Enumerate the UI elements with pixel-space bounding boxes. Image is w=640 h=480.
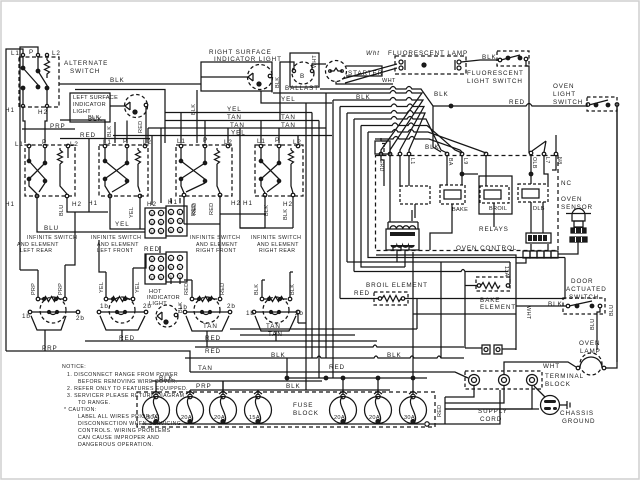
wire TAN bus right mid — [230, 299, 417, 330]
sw3 internals — [181, 148, 205, 162]
wire ballast right to starter — [312, 64, 326, 70]
wire PRP/BLK y390 — [190, 389, 390, 391]
terminal 2 — [499, 375, 510, 386]
terminal — [586, 103, 590, 107]
starter contacts — [330, 68, 342, 71]
wire YEL bus — [110, 198, 145, 229]
wire through plugs — [465, 348, 516, 349]
svg-text:ELEMENT: ELEMENT — [480, 304, 516, 311]
wire BLU down — [597, 308, 600, 350]
svg-text:LABEL ALL WIRES PRIOR TO: LABEL ALL WIRES PRIOR TO — [78, 414, 160, 420]
svg-text:P: P — [275, 137, 280, 144]
ballast box — [290, 53, 319, 87]
door switch box — [563, 298, 605, 314]
svg-text:TAN: TAN — [266, 323, 281, 330]
svg-text:RED: RED — [209, 203, 215, 215]
infinite switch 2 box — [99, 145, 148, 196]
lamp right terminal — [144, 103, 148, 107]
strip step wire — [516, 258, 526, 263]
fuse feeds — [156, 378, 413, 394]
wire h9 — [375, 137, 462, 153]
svg-text:TAN: TAN — [203, 323, 218, 330]
svg-text:LEFT REAR: LEFT REAR — [20, 248, 53, 254]
contact dot — [36, 69, 40, 73]
wire h7 — [361, 123, 462, 153]
grid B circles — [149, 256, 154, 261]
ground mini box — [375, 141, 390, 154]
svg-text:OVEN: OVEN — [553, 83, 574, 90]
plug connector 1 — [482, 345, 490, 354]
wire right terminal down — [261, 78, 332, 103]
svg-text:2b: 2b — [76, 315, 85, 322]
terminal H2 — [45, 104, 48, 107]
svg-text:TAN: TAN — [230, 122, 245, 129]
grid B left — [145, 254, 166, 284]
svg-text:SENSOR: SENSOR — [561, 204, 593, 211]
wire gap drop box1-2 — [88, 139, 90, 213]
svg-text:10: 10 — [150, 257, 155, 262]
svg-text:RED: RED — [80, 132, 96, 139]
wire starter diag to lamp — [342, 64, 397, 83]
svg-text:BLU: BLU — [44, 225, 59, 232]
wire stubs to sw2 — [126, 121, 128, 144]
svg-text:3. SERVICER PLEASE RETURN DIA: 3. SERVICER PLEASE RETURN DIAGRAM — [67, 393, 184, 399]
element left rear circle — [40, 297, 66, 323]
svg-text:Wht: Wht — [366, 50, 380, 57]
svg-text:RELAYS: RELAYS — [479, 226, 509, 233]
svg-text:LIGHT: LIGHT — [149, 301, 167, 307]
svg-text:BLK: BLK — [107, 126, 113, 137]
oven control dashed box — [376, 156, 559, 251]
wire RED bus2 — [195, 346, 332, 348]
infinite switch 4 box — [255, 145, 303, 196]
lamp center dot — [422, 63, 426, 67]
svg-text:TAN: TAN — [281, 122, 296, 129]
svg-text:BLK: BLK — [88, 115, 99, 121]
svg-text:30A: 30A — [404, 415, 415, 421]
terminal GRD — [379, 152, 383, 156]
contact dot — [36, 85, 40, 89]
chassis ground circle — [541, 396, 560, 415]
wire YEL row2 — [113, 135, 332, 137]
grid digits — [150, 210, 182, 280]
svg-text:BLK: BLK — [548, 301, 563, 308]
svg-text:FUSE: FUSE — [293, 402, 313, 409]
sensor band2 — [570, 237, 587, 242]
grid stubs — [171, 198, 180, 284]
element1 wires up PRP — [38, 265, 65, 297]
terminal 3 — [527, 375, 538, 386]
svg-text:BLU: BLU — [609, 305, 615, 316]
blade — [589, 100, 608, 105]
wire mid right link — [413, 252, 516, 378]
svg-text:SUPPLY: SUPPLY — [478, 408, 508, 415]
grid A left — [145, 208, 166, 238]
svg-text:WHT: WHT — [525, 306, 531, 320]
svg-text:BLU: BLU — [59, 205, 65, 216]
wire sw3 drops RED — [184, 197, 220, 224]
svg-text:CHASSIS: CHASSIS — [560, 410, 594, 417]
contact dot — [518, 56, 522, 60]
relay broil — [479, 176, 512, 214]
wire BLK y381 — [151, 380, 322, 382]
svg-text:LAMP: LAMP — [580, 348, 601, 355]
svg-text:1b: 1b — [179, 304, 188, 311]
svg-text:RIGHT FRONT: RIGHT FRONT — [196, 248, 237, 254]
ground symbol — [381, 138, 387, 152]
svg-text:LIGHT: LIGHT — [553, 91, 576, 98]
svg-text:PRP: PRP — [50, 123, 66, 130]
wire y346 — [332, 345, 464, 347]
terminal — [615, 103, 619, 107]
svg-text:BLOCK: BLOCK — [293, 410, 319, 417]
wire to ground — [534, 386, 545, 397]
connector strip — [523, 251, 530, 258]
fuse 20A #2 — [210, 397, 237, 424]
wire H2 down to sw1 P — [45, 108, 47, 143]
svg-text:1b: 1b — [246, 310, 255, 317]
switch terminal — [498, 58, 502, 62]
svg-text:RED: RED — [138, 121, 144, 133]
el4 2b drop — [297, 314, 299, 323]
svg-text:RED: RED — [437, 405, 443, 417]
svg-text:PRP: PRP — [58, 283, 64, 295]
svg-text:GRD: GRD — [378, 159, 384, 172]
wire y358 BLK — [185, 356, 464, 358]
bake element box — [476, 277, 510, 291]
wire h5 — [347, 111, 425, 263]
wire switch down — [526, 61, 529, 153]
ballast terminal — [292, 69, 295, 72]
svg-text:OLB: OLB — [531, 157, 537, 169]
svg-text:DANGEROUS OPERATION.: DANGEROUS OPERATION. — [78, 442, 153, 448]
svg-text:RIGHT REAR: RIGHT REAR — [259, 248, 295, 254]
indicator box — [201, 62, 272, 91]
element4 lower row — [252, 310, 256, 314]
wire sw2 H2 drop — [139, 198, 141, 229]
wire red — [433, 104, 587, 107]
svg-text:RED: RED — [220, 283, 226, 295]
black pin strip — [526, 233, 551, 243]
svg-text:H2: H2 — [283, 201, 293, 208]
lamp left pins — [399, 60, 403, 64]
oven switch relay feed — [532, 135, 556, 152]
contact dot — [21, 86, 25, 90]
svg-text:LEFT SURFACE: LEFT SURFACE — [73, 95, 118, 101]
ballast terminal — [310, 69, 313, 72]
lamp right pins — [457, 60, 461, 64]
terminal H1 — [21, 104, 24, 107]
svg-text:RED: RED — [509, 99, 525, 106]
bake terminals + resistor — [477, 284, 481, 288]
switch blade — [501, 55, 520, 60]
lamp left contact — [125, 102, 130, 110]
svg-text:BLK: BLK — [110, 77, 125, 84]
svg-text:BLK: BLK — [191, 104, 197, 115]
infinite switch 3 box — [176, 145, 232, 196]
svg-text:20A: 20A — [181, 415, 192, 421]
element right rear circle — [263, 297, 289, 323]
relay box 2 bake — [440, 185, 465, 204]
wire WHT — [504, 362, 576, 375]
wire lamp left down BLK — [110, 106, 125, 143]
svg-text:BA: BA — [447, 158, 453, 166]
svg-text:PRP: PRP — [31, 283, 37, 295]
element3 lower row — [183, 310, 187, 314]
svg-text:PRP: PRP — [42, 345, 58, 352]
junction dot red line — [449, 104, 453, 108]
svg-text:RED: RED — [329, 364, 345, 371]
element1 lower row — [28, 310, 32, 314]
fuse 15A — [245, 397, 272, 424]
wire h3 — [333, 98, 423, 379]
svg-text:WHT: WHT — [312, 54, 318, 68]
ballast circle — [292, 62, 314, 84]
terminal block box — [465, 371, 542, 389]
svg-text:TAN: TAN — [198, 365, 213, 372]
svg-text:10: 10 — [150, 211, 155, 216]
wire PRP long — [6, 351, 190, 372]
svg-text:YEL: YEL — [115, 221, 130, 228]
bake wires — [354, 270, 508, 272]
svg-text:PRP: PRP — [196, 383, 212, 390]
sensor bulb — [572, 209, 585, 222]
wire gap drop box3-4 — [240, 128, 265, 228]
lamp right terminal — [268, 74, 272, 78]
svg-text:RED: RED — [144, 246, 160, 253]
svg-text:CORD: CORD — [480, 416, 502, 423]
svg-text:BLK: BLK — [425, 144, 440, 151]
wire ballast left — [280, 62, 294, 120]
svg-text:BAKE: BAKE — [452, 207, 468, 213]
svg-text:RED: RED — [192, 203, 198, 215]
wire P up — [20, 47, 38, 270]
svg-text:INFINITE SWITCH: INFINITE SWITCH — [251, 235, 301, 241]
wire H2 sw1 to H1 sw2 — [67, 198, 108, 212]
wire TAN row2 — [148, 127, 326, 129]
wire BLU bus — [37, 198, 145, 232]
supply cord wires — [445, 386, 532, 409]
wire TAN row — [165, 120, 319, 122]
contact dot — [21, 66, 25, 70]
infinite switch 1 box — [25, 145, 75, 196]
terminal 1 — [469, 375, 480, 386]
element bucket wires — [31, 316, 66, 351]
fuse 20A #4 — [365, 397, 392, 424]
svg-text:BLK: BLK — [356, 94, 371, 101]
svg-text:RED: RED — [354, 290, 370, 297]
grid A circles — [149, 210, 154, 215]
contact dot — [506, 56, 510, 60]
wire h1 — [320, 87, 441, 153]
wire BLK mid — [298, 251, 405, 324]
svg-text:H2: H2 — [72, 201, 82, 208]
lamp dot — [133, 110, 137, 114]
svg-text:SWITCH: SWITCH — [553, 99, 583, 106]
svg-text:FLUORESCENT: FLUORESCENT — [467, 70, 524, 77]
svg-text:YEL: YEL — [227, 106, 242, 113]
svg-text:BROIL: BROIL — [489, 206, 507, 212]
svg-text:BLK: BLK — [290, 284, 296, 295]
transformer core — [390, 232, 415, 236]
svg-text:BEFORE REMOVING WIRE COVER.: BEFORE REMOVING WIRE COVER. — [78, 379, 177, 385]
broil element box — [374, 292, 408, 305]
wire buses right — [184, 214, 293, 228]
wire L1 drop — [22, 57, 24, 69]
left bundle verticals — [306, 103, 319, 390]
svg-text:B: B — [300, 73, 305, 80]
ground stem — [560, 401, 570, 409]
svg-text:BLU: BLU — [590, 319, 596, 330]
wire blk vert — [196, 90, 198, 143]
wire lamp to fluor switch — [461, 60, 499, 62]
svg-text:L7: L7 — [544, 157, 550, 164]
wire stubs to sw4 — [261, 121, 298, 144]
starter circle — [326, 61, 347, 82]
svg-text:TO RANGE.: TO RANGE. — [78, 400, 111, 406]
svg-text:12: 12 — [150, 275, 155, 280]
svg-text:* CAUTION:: * CAUTION: — [64, 407, 97, 413]
wire L1 up-left long left rail — [6, 49, 23, 351]
svg-text:DISCONNECTION WHEN SERVICING: DISCONNECTION WHEN SERVICING — [78, 421, 181, 427]
svg-text:YEL: YEL — [99, 282, 105, 293]
terminal aux — [45, 53, 48, 56]
svg-text:TAN: TAN — [227, 114, 242, 121]
fuse 20A — [177, 397, 204, 424]
svg-text:BLK: BLK — [271, 352, 286, 359]
svg-text:NOTICE:: NOTICE: — [62, 364, 86, 370]
svg-text:WHT: WHT — [543, 363, 560, 370]
svg-text:INFINITE SWITCH: INFINITE SWITCH — [27, 235, 77, 241]
left surface indicator label box — [70, 93, 110, 122]
wire drops to grid A — [152, 128, 161, 205]
svg-text:20A: 20A — [334, 415, 345, 421]
wire lamp left to box — [201, 76, 248, 78]
svg-text:BLK: BLK — [482, 54, 497, 61]
wire TAN bus2 — [240, 334, 355, 336]
fuse block dashed outline — [137, 392, 435, 427]
sw2 internals — [105, 148, 127, 162]
wire h8 — [368, 130, 486, 154]
svg-text:12: 12 — [150, 229, 155, 234]
svg-text:P: P — [203, 137, 208, 144]
svg-text:20A: 20A — [214, 415, 225, 421]
wire YEL row — [165, 112, 312, 114]
element right front circle — [194, 297, 220, 323]
fluorescent lamp box — [395, 56, 466, 74]
dot — [594, 103, 598, 107]
svg-text:H1: H1 — [88, 200, 98, 207]
svg-text:RED: RED — [184, 283, 190, 295]
grid A right — [166, 206, 187, 236]
relay feed wires — [447, 155, 556, 186]
transformer secondary — [391, 245, 414, 247]
svg-text:H1: H1 — [168, 199, 178, 206]
wht line down — [376, 255, 516, 350]
lamp dot — [257, 82, 261, 86]
wire RED fuse feed — [287, 358, 427, 378]
svg-text:LIGHT SWITCH: LIGHT SWITCH — [467, 78, 523, 85]
terminal P — [36, 53, 39, 56]
svg-text:L1: L1 — [11, 50, 20, 57]
svg-text:CONTROLS. WIRING PROBLEMS: CONTROLS. WIRING PROBLEMS — [78, 428, 171, 434]
dot — [606, 103, 610, 107]
element4 wires up BLK — [262, 272, 290, 297]
svg-text:L1: L1 — [15, 141, 24, 148]
wire starter bottom WHT — [336, 82, 393, 85]
broil wires — [340, 298, 378, 300]
wire aux drop — [46, 57, 48, 61]
svg-text:YEL: YEL — [281, 96, 296, 103]
svg-text:ACTUATED: ACTUATED — [566, 286, 607, 293]
svg-text:BLK: BLK — [387, 352, 402, 359]
element2 wires up YEL — [106, 268, 133, 297]
svg-text:WHT: WHT — [382, 78, 396, 84]
svg-text:BLK: BLK — [286, 383, 301, 390]
svg-text:H1: H1 — [243, 200, 253, 207]
svg-text:RIGHT SURFACE: RIGHT SURFACE — [209, 49, 272, 56]
svg-text:TAN: TAN — [281, 114, 296, 121]
svg-text:L9: L9 — [462, 158, 468, 165]
resistor coil vertical — [45, 60, 50, 78]
sw1 internals — [29, 148, 45, 162]
sensor band — [571, 228, 586, 233]
fuse 30A — [143, 397, 170, 424]
svg-text:1b: 1b — [22, 313, 31, 320]
sensor wire — [558, 242, 578, 254]
wire h4 — [340, 104, 424, 299]
svg-text:GROUND: GROUND — [562, 418, 595, 425]
svg-text:YEL: YEL — [231, 130, 246, 137]
svg-text:NC: NC — [561, 180, 572, 187]
wire to switch — [516, 305, 566, 307]
svg-text:1. DISCONNECT RANGE FROM POWE: 1. DISCONNECT RANGE FROM POWER — [67, 372, 178, 378]
svg-text:TERMINAL: TERMINAL — [545, 373, 584, 380]
switch blade — [23, 68, 39, 86]
wire P drop — [37, 57, 39, 72]
wire down right side BLU — [616, 106, 618, 362]
element2 lower row — [97, 310, 101, 314]
transformer leads — [381, 156, 412, 222]
svg-text:L2: L2 — [52, 50, 61, 57]
oven light switch box — [587, 97, 617, 111]
lamp left contact — [248, 73, 253, 81]
svg-text:LEFT FRONT: LEFT FRONT — [97, 248, 134, 254]
starter label box — [346, 66, 382, 76]
svg-text:H2: H2 — [231, 200, 241, 207]
lamp right wire — [606, 106, 617, 368]
relay box 1 — [400, 186, 430, 204]
relay dlb — [518, 184, 548, 202]
wire inner branch — [75, 90, 165, 144]
plug connector 2 — [494, 345, 502, 354]
oven lamp — [580, 353, 602, 375]
transformer feet — [393, 246, 409, 250]
wire from dot right — [462, 173, 478, 175]
svg-text:L2: L2 — [70, 141, 79, 148]
svg-text:20A: 20A — [369, 415, 380, 421]
alternate switch box — [19, 57, 59, 107]
element3 wires up RED — [192, 268, 220, 297]
svg-text:BAKE: BAKE — [480, 297, 500, 304]
svg-text:BLK: BLK — [283, 209, 289, 220]
indicator lamp circle — [125, 95, 148, 118]
wire RED row — [60, 138, 150, 140]
wire h6 — [354, 117, 447, 272]
svg-text:OVEN CONTROL: OVEN CONTROL — [456, 245, 517, 252]
wire sw4 drops BLK — [265, 197, 293, 228]
svg-text:BALLAST: BALLAST — [285, 85, 319, 92]
